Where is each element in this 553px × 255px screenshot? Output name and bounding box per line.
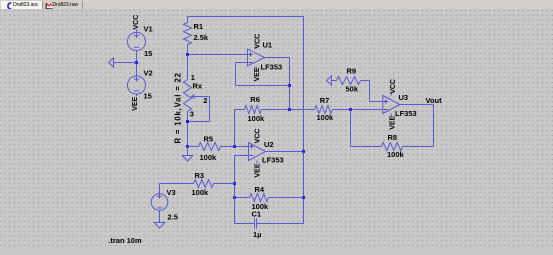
wire U3 output to Vout corner xyxy=(400,105,434,147)
wire U2 output xyxy=(266,151,304,153)
wire Rx bottom xyxy=(187,112,189,147)
junction Rx wiper/bottom xyxy=(186,120,189,123)
svg-text:2.5k: 2.5k xyxy=(194,33,209,42)
svg-text:100k: 100k xyxy=(192,188,210,197)
wire U2out column down to C1 xyxy=(303,152,305,224)
wire U2 inverting column xyxy=(234,156,236,224)
wire top row (R1 top to U2-output column) xyxy=(188,16,304,18)
ground under V3 xyxy=(154,223,165,229)
junction R3 node xyxy=(233,182,236,185)
svg-text:R4: R4 xyxy=(255,185,265,194)
junction U1 output on row xyxy=(288,108,291,111)
wire R1 bottom xyxy=(187,45,189,55)
wire R6 to R7 xyxy=(262,109,315,111)
svg-text:V3: V3 xyxy=(167,188,176,197)
resistor R5 xyxy=(188,135,249,162)
svg-text:VCC: VCC xyxy=(133,15,140,30)
wire U2 inverting stub xyxy=(235,155,249,157)
wire U1 feedback loop xyxy=(236,63,290,86)
junction R4 right xyxy=(302,196,305,199)
wire R6 left xyxy=(235,109,245,111)
svg-text:1: 1 xyxy=(191,73,195,82)
svg-text:1µ: 1µ xyxy=(253,230,262,239)
svg-text:R8: R8 xyxy=(388,133,398,142)
ground arrow left of sources xyxy=(109,58,137,67)
svg-text:U3: U3 xyxy=(399,93,409,102)
junction R7 / R8 / U3- xyxy=(349,108,352,111)
wire R7 to U3 inverting input xyxy=(333,109,383,111)
op-amp U2 xyxy=(249,129,284,178)
resistor R1 xyxy=(184,22,209,45)
tab icon waveform xyxy=(45,2,53,10)
wire R1 node to Rx pin1 xyxy=(187,55,189,80)
svg-text:100k: 100k xyxy=(248,114,266,123)
svg-text:Rx: Rx xyxy=(193,82,203,91)
wire to U1 noninverting input xyxy=(188,54,248,56)
svg-text:R1: R1 xyxy=(194,22,204,31)
voltage source V3 xyxy=(151,184,178,223)
svg-text:Vout: Vout xyxy=(426,96,443,105)
svg-text:VCC: VCC xyxy=(390,79,397,94)
op-amp U3 xyxy=(383,79,417,130)
wire R1 top stub xyxy=(187,17,189,23)
svg-text:R7: R7 xyxy=(320,96,330,105)
svg-text:3: 3 xyxy=(190,109,194,118)
ground under R5 node xyxy=(182,147,193,162)
voltage source V2 xyxy=(127,63,152,111)
svg-text:2.5: 2.5 xyxy=(168,213,178,222)
wire U2-output column (to R1 top) xyxy=(303,17,305,152)
svg-text:15: 15 xyxy=(144,49,152,58)
svg-text:VEE: VEE xyxy=(132,96,139,110)
svg-text:2: 2 xyxy=(203,96,207,105)
svg-text:R3: R3 xyxy=(195,171,205,180)
resistor R6 xyxy=(245,95,266,123)
junction U1 feedback tap xyxy=(288,84,291,87)
junction R5 node xyxy=(186,145,189,148)
voltage source V1 xyxy=(127,15,152,63)
svg-text:LF353: LF353 xyxy=(261,63,283,72)
svg-text:R = 10k,Val = 22: R = 10k,Val = 22 xyxy=(174,72,183,143)
junction between V1 V2 xyxy=(135,61,138,64)
svg-text:50k: 50k xyxy=(346,85,359,94)
svg-text:R5: R5 xyxy=(204,135,214,144)
svg-text:VCC: VCC xyxy=(255,34,262,49)
potentiometer Rx xyxy=(174,72,210,143)
svg-text:VEE: VEE xyxy=(254,163,261,177)
svg-text:100k: 100k xyxy=(200,153,218,162)
resistor R8 xyxy=(351,110,434,160)
junction R4 left xyxy=(233,196,236,199)
resistor R3 xyxy=(160,171,235,197)
svg-text:R6: R6 xyxy=(250,95,260,104)
svg-text:V1: V1 xyxy=(144,25,153,34)
resistor R9 xyxy=(332,66,383,101)
resistor R7 xyxy=(315,96,335,122)
svg-text:R9: R9 xyxy=(347,66,357,75)
svg-text:.tran 10m: .tran 10m xyxy=(108,236,142,245)
wire R6-left column down to U2+ xyxy=(234,110,236,147)
capacitor C1 xyxy=(235,210,304,239)
svg-text:100k: 100k xyxy=(317,113,335,122)
resistor R4 xyxy=(235,185,304,211)
junction U2 plus input xyxy=(233,145,236,148)
svg-text:VEE: VEE xyxy=(254,67,261,81)
svg-text:100k: 100k xyxy=(387,150,405,159)
tab icon schematic xyxy=(5,2,12,10)
svg-text:C1: C1 xyxy=(252,210,262,219)
svg-text:VEE: VEE xyxy=(389,115,396,129)
tab bar xyxy=(0,0,553,9)
svg-text:LF353: LF353 xyxy=(262,156,284,165)
svg-text:VCC: VCC xyxy=(255,129,262,144)
junction U2 output xyxy=(302,150,305,153)
junction R1 / Rx / U1+ xyxy=(186,53,189,56)
svg-text:V2: V2 xyxy=(144,68,153,77)
svg-text:LF353: LF353 xyxy=(395,109,417,118)
svg-text:15: 15 xyxy=(144,91,152,100)
ground arrow at R9 xyxy=(327,76,332,85)
op-amp U1 xyxy=(248,34,283,82)
svg-text:U1: U1 xyxy=(263,41,273,50)
wire U1 output xyxy=(265,57,290,59)
wire U1 output column xyxy=(289,58,291,110)
svg-text:U2: U2 xyxy=(264,140,274,149)
